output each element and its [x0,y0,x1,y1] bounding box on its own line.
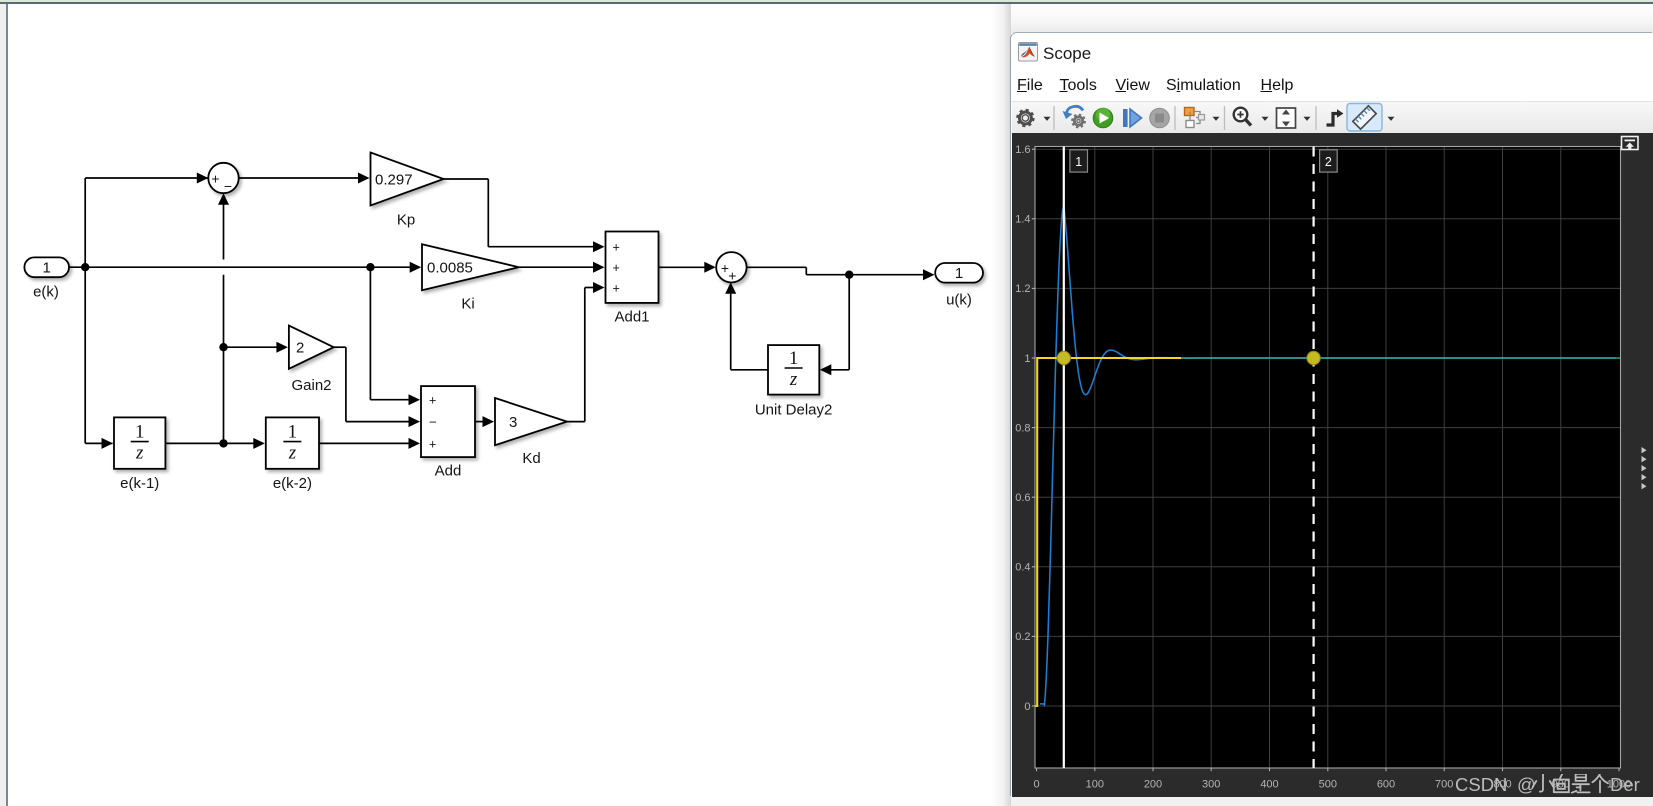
svg-text:0.8: 0.8 [1015,422,1030,434]
svg-text:0.2: 0.2 [1015,631,1030,643]
svg-text:1: 1 [288,422,298,443]
svg-text:Gain2: Gain2 [291,377,331,394]
svg-text:z: z [135,443,144,464]
svg-text:0: 0 [1033,779,1039,791]
svg-text:+: + [211,171,219,187]
svg-text:700: 700 [1435,779,1453,791]
svg-text:100: 100 [1086,779,1104,791]
svg-text:+: + [613,282,620,296]
svg-text:+: + [429,437,436,451]
svg-text:−: − [429,415,437,430]
svg-text:500: 500 [1319,779,1337,791]
svg-text:0.0085: 0.0085 [427,259,473,276]
svg-text:2: 2 [1325,155,1332,169]
svg-text:Add: Add [435,463,462,480]
svg-text:1.2: 1.2 [1015,283,1030,295]
svg-text:0.6: 0.6 [1015,492,1030,504]
svg-text:Ki: Ki [461,296,474,313]
svg-text:400: 400 [1260,779,1278,791]
svg-text:+: + [429,394,436,408]
svg-text:0.297: 0.297 [375,171,413,188]
svg-text:u(k): u(k) [946,292,972,309]
svg-text:300: 300 [1202,779,1220,791]
svg-text:Kp: Kp [397,212,415,229]
svg-text:1: 1 [1024,353,1030,365]
svg-text:600: 600 [1377,779,1395,791]
svg-text:e(k): e(k) [33,284,59,301]
svg-text:1: 1 [135,422,145,443]
svg-text:−: − [224,178,232,194]
svg-text:z: z [789,369,798,390]
svg-text:1.6: 1.6 [1015,144,1030,156]
svg-text:z: z [288,443,297,464]
svg-text:+: + [728,268,736,284]
svg-text:Add1: Add1 [614,309,649,326]
svg-text:2: 2 [296,339,304,356]
svg-text:+: + [613,261,620,275]
svg-text:1.4: 1.4 [1015,214,1030,226]
svg-text:1: 1 [43,260,51,277]
svg-text:Unit Delay2: Unit Delay2 [755,402,833,419]
svg-text:3: 3 [509,414,517,431]
svg-text:1: 1 [789,348,799,369]
svg-text:0.4: 0.4 [1015,562,1030,574]
svg-text:1: 1 [1075,155,1082,169]
svg-text:200: 200 [1144,779,1162,791]
svg-text:Kd: Kd [522,450,540,467]
svg-text:e(k-1): e(k-1) [120,475,159,492]
svg-text:+: + [613,241,620,255]
svg-text:e(k-2): e(k-2) [273,475,312,492]
svg-text:0: 0 [1024,701,1030,713]
svg-text:1: 1 [955,265,963,282]
